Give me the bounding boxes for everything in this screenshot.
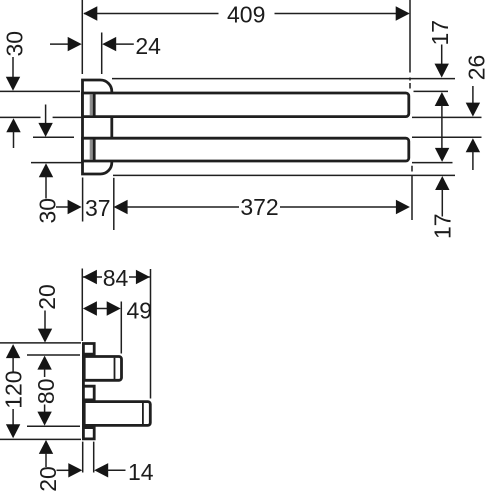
dimension 30 bar1 top arrow: [12, 57, 14, 78]
dimension 20 top arrow: [44, 311, 46, 330]
svg-text:17: 17: [427, 20, 453, 46]
dimension 372 line: [127, 206, 398, 208]
dimension 17 top-right lower arrow, shared tail to bar2: [435, 92, 449, 106]
extension line below plate x=82.6: [82, 178, 84, 222]
arm 2 end cap line: [142, 403, 144, 424]
dimension 20 bottom arrow: [39, 440, 53, 454]
svg-text:120: 120: [0, 370, 26, 408]
svg-text:372: 372: [240, 194, 278, 220]
dimension 30 bar2 bottom arrow: [39, 163, 53, 177]
dimension 409 right arrow: [396, 6, 410, 20]
extension lines bar2 top y=137.3: [33, 136, 482, 138]
extension lines bar1 bottom y=117.6: [0, 116, 482, 118]
extension line x=150.5 arm2 end (side): [150, 269, 152, 399]
bar 1 (top view): [83, 93, 409, 117]
dimension 37/372 shared arrow: [114, 200, 128, 214]
dimension 24 right arrow with tail: [102, 37, 116, 51]
dimension 37 left arrow with tail: [56, 206, 69, 208]
extension line x=121.3 arm1 end (side): [120, 302, 122, 354]
dimension 84 left arrow: [83, 270, 97, 284]
extension lines below bottom bump for dim 14: [83, 442, 94, 473]
extension line below bar end x=411.6: [411, 166, 413, 220]
dimension 409 line: [84, 13, 409, 15]
dimension 26 lower arrow: [466, 138, 480, 152]
svg-text:409: 409: [227, 1, 265, 27]
svg-text:30: 30: [34, 198, 60, 224]
dimension 30 bar2 top arrow: [45, 105, 47, 124]
arm 1 (side view): [84, 357, 121, 381]
svg-text:14: 14: [128, 459, 154, 485]
svg-text:24: 24: [135, 33, 161, 59]
dimension 84 line: [83, 276, 150, 278]
dimension 80 bottom arrow: [44, 405, 46, 413]
dimension 80 top arrow: [37, 356, 51, 370]
extension lines bar2 bottom y=162.6: [31, 162, 453, 164]
extension line plate bottom y=175.4: [113, 174, 455, 176]
svg-text:17: 17: [430, 213, 456, 239]
pivot axis gray lines bar 1: [90, 94, 93, 115]
dimension 17 bottom-right lower arrow: [435, 176, 449, 190]
bar 2 (top view): [83, 138, 409, 161]
wall plate left edge (side view): [82, 344, 85, 439]
dimension 14 right arrow with tail: [94, 463, 108, 477]
extension line plate bottom (side) y=439: [0, 438, 81, 440]
dimension 24 left arrow with tail: [50, 43, 70, 45]
svg-text:30: 30: [1, 31, 27, 57]
extension line at bar end x=410: [409, 0, 411, 89]
svg-text:26: 26: [463, 55, 487, 81]
extension line arm1 top (side) y=355: [27, 354, 80, 356]
extension line below plate right edge x=113.8: [113, 178, 115, 230]
dimension 409 left arrow: [83, 6, 97, 20]
extension line at plate left edge x=82 (above plate): [81, 0, 83, 74]
extension line plate top (side) y=343.5: [0, 342, 81, 344]
svg-text:20: 20: [34, 284, 60, 310]
svg-text:84: 84: [103, 265, 129, 291]
dimension 120 bottom arrow: [12, 409, 14, 425]
svg-text:80: 80: [33, 379, 59, 405]
extension line plate top y=78.2: [112, 78, 455, 80]
pivot axis gray lines bar 2: [90, 140, 93, 160]
svg-text:37: 37: [85, 195, 111, 221]
plate middle bracket bump: [83, 386, 94, 400]
dimension 120 top arrow: [6, 344, 20, 358]
dimension 14 left arrow with tail: [57, 469, 70, 471]
dimension 372 right arrow: [396, 200, 410, 214]
extension lines bar1 top y=91.4: [0, 90, 448, 92]
arm 2 (side view): [84, 402, 150, 426]
plate bottom bracket bump: [83, 428, 94, 439]
extension line x=101.7 for dim 24: [101, 33, 103, 75]
plate top bracket bump: [83, 344, 94, 355]
wall plate (top view): [83, 80, 112, 174]
svg-text:49: 49: [127, 297, 153, 323]
extension line arm2 bottom (side) y=426: [27, 425, 80, 427]
dimension 84 right arrow: [136, 270, 150, 284]
arm 1 end cap line: [114, 358, 116, 379]
dimension 30 bar1 bottom arrow: [6, 118, 20, 132]
dimension 17 top-right upper arrow: [441, 45, 443, 65]
pivot joint edge bar 2: [93, 138, 96, 161]
dimension 26 upper arrow: [472, 86, 474, 104]
dimension 49 right arrow: [107, 301, 121, 315]
dimension 49 left arrow: [83, 301, 97, 315]
pivot joint edge bar 1: [93, 93, 96, 117]
extension line x=82.3 above plate (side): [81, 269, 83, 342]
dimension 49 line: [96, 308, 108, 310]
